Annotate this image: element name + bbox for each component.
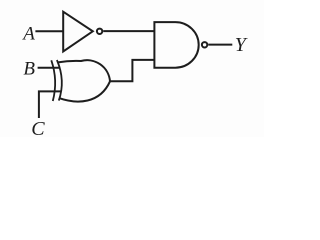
wire XOR output to NAND bottom input [110,60,154,81]
XOR U2 body [58,60,110,101]
NAND U3 body [154,22,198,68]
wire B to XOR top input [38,67,61,69]
inverter U1 bubble [97,29,102,34]
XOR U2 inner input curve [57,60,62,101]
svg-text:A: A [21,23,35,44]
svg-text:B: B [23,59,35,80]
svg-text:Y: Y [235,34,248,56]
NAND U3 bubble [202,42,207,47]
wire NAND output to Y [208,44,232,46]
svg-text:C: C [31,118,45,137]
XOR U2 outer input curve [51,60,55,101]
inverter U1 triangle [63,12,93,52]
wire A to inverter [35,30,63,32]
wire C to XOR bottom input [39,91,61,118]
wire inverter output to NAND top input [103,30,154,32]
